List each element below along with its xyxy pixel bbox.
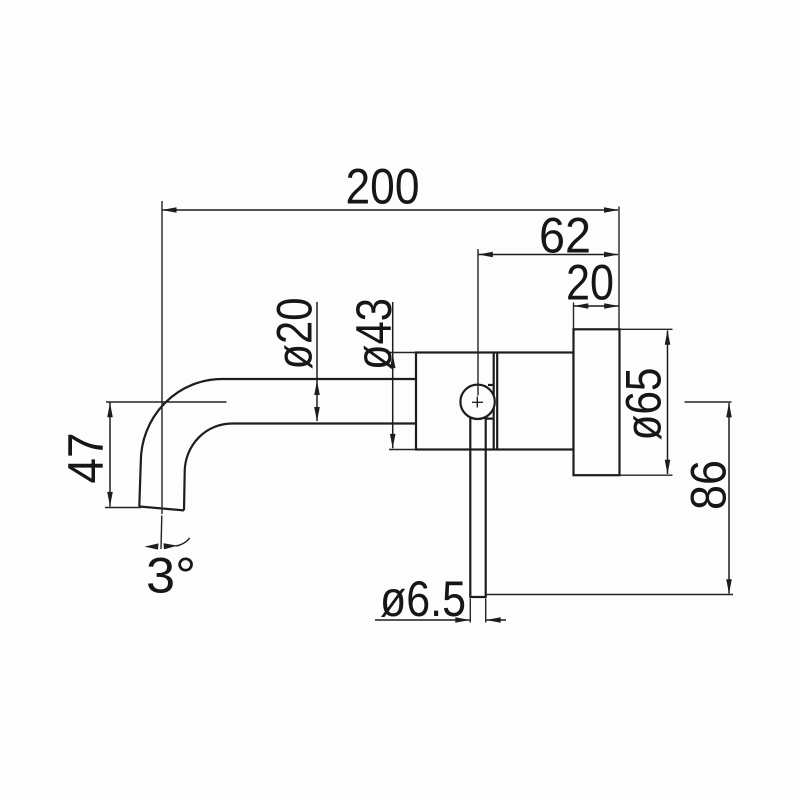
valve circle	[460, 385, 494, 419]
spout outer edge	[139, 379, 416, 507]
extension line left (spout centre)	[161, 201, 163, 514]
dimension 86	[728, 403, 730, 594]
handle extension lines	[470, 599, 485, 623]
dimension 47	[109, 403, 111, 507]
svg-text:3°: 3°	[146, 548, 196, 604]
extension line spout centre horiz	[106, 401, 227, 403]
dimension ø43 leader	[392, 302, 394, 448]
wall plate	[574, 329, 620, 475]
extension line centre right	[685, 401, 732, 403]
handle rod	[469, 415, 486, 597]
cartridge notch lines	[485, 385, 494, 419]
dimension 200	[162, 209, 618, 211]
extension line plate front	[573, 303, 575, 331]
cartridge divider	[494, 353, 498, 450]
extension line cartridge centre	[477, 249, 479, 396]
svg-text:ø43: ø43	[346, 298, 402, 370]
svg-text:200: 200	[346, 159, 420, 215]
dimension ø20 leader	[316, 302, 318, 421]
angle arrows	[145, 543, 159, 549]
angle 3 deg leader	[160, 516, 163, 550]
svg-text:20: 20	[566, 255, 614, 311]
svg-text:ø20: ø20	[267, 298, 323, 370]
plus marker	[472, 397, 483, 408]
dimension ø6.5	[375, 619, 470, 621]
svg-text:ø65: ø65	[616, 368, 672, 441]
extension lines plate dia	[620, 329, 673, 475]
extension line spout tip	[105, 507, 141, 509]
extension line right (plate edge)	[618, 207, 620, 330]
extension lines body dia	[389, 353, 416, 450]
extension line handle bottom	[486, 594, 733, 596]
svg-text:ø6.5: ø6.5	[380, 571, 466, 627]
dimension 20	[574, 305, 619, 307]
spout outlet end	[139, 507, 184, 511]
svg-text:86: 86	[681, 460, 737, 510]
dimension 62	[478, 254, 618, 256]
body	[416, 353, 574, 450]
dimension ø65	[667, 331, 669, 475]
spout inner edge	[184, 424, 416, 511]
svg-text:47: 47	[58, 433, 114, 484]
angle arc	[176, 538, 190, 546]
